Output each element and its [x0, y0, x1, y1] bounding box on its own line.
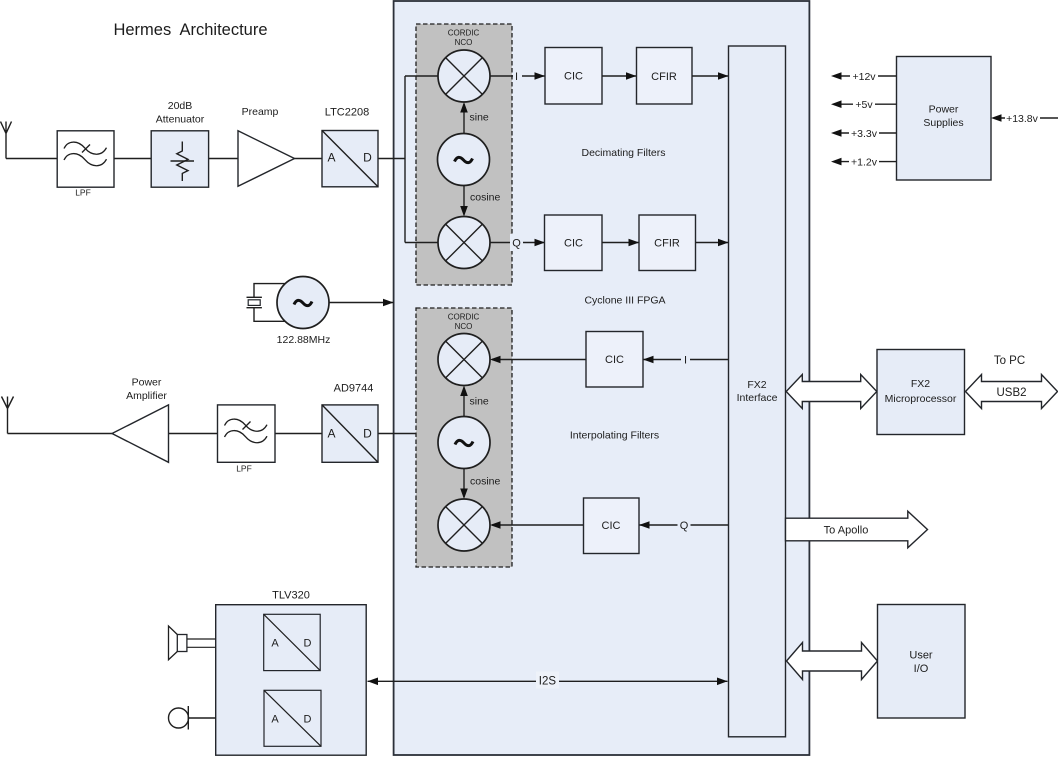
svg-text:D: D — [304, 714, 312, 726]
LPF box TX — [218, 405, 276, 474]
svg-text:Attenuator: Attenuator — [156, 114, 205, 126]
arrow CIC to CFIR (I) — [602, 75, 637, 77]
microphone — [169, 706, 216, 730]
codec TLV320 — [216, 590, 367, 756]
svg-text:FX2: FX2 — [911, 378, 930, 390]
power amplifier — [112, 377, 169, 463]
bus arrow USB2 — [966, 375, 1058, 409]
wire junction to mixer Q — [405, 242, 440, 244]
arrow FX2 interface to CIC (TX I) — [643, 359, 729, 361]
bus arrow FX2 interface to User IO — [787, 643, 878, 680]
oscillator 122.88MHz — [277, 277, 331, 347]
mixer RX Q — [438, 217, 490, 269]
svg-text:CIC: CIC — [605, 354, 624, 366]
svg-text:CORDIC: CORDIC — [448, 29, 480, 38]
power input +13.8v — [991, 110, 1058, 126]
arrow CFIR to FX2 interface (I) — [692, 75, 729, 77]
svg-text:D: D — [363, 151, 372, 165]
svg-text:To Apollo: To Apollo — [824, 525, 869, 537]
arrow FX2 interface to CIC (TX Q) — [639, 524, 729, 526]
User IO box — [878, 605, 966, 719]
svg-text:20dB: 20dB — [168, 100, 193, 112]
svg-text:cosine: cosine — [470, 192, 501, 204]
svg-text:A: A — [327, 151, 335, 165]
dashed box CORDIC NCO (transmit) — [416, 308, 512, 567]
power supplies box — [897, 57, 992, 181]
svg-text:Supplies: Supplies — [923, 117, 963, 129]
svg-text:CFIR: CFIR — [654, 238, 680, 250]
CFIR box RX Q — [639, 215, 696, 271]
wire attenuator to preamp — [209, 158, 238, 160]
svg-text:TLV320: TLV320 — [272, 590, 310, 602]
DAC box TLV320 bottom — [264, 690, 321, 746]
svg-text:CIC: CIC — [564, 71, 583, 83]
attenuator 20dB — [151, 100, 208, 187]
CIC box TX I — [586, 332, 643, 388]
svg-text:D: D — [363, 427, 372, 441]
arrow oscillator to FPGA — [330, 302, 394, 304]
power rail +5v — [831, 96, 897, 112]
wire LTC2208 to junction — [378, 158, 405, 160]
NCO oscillator RX — [438, 134, 490, 186]
wire junction to mixer I — [405, 75, 440, 77]
svg-text:USB2: USB2 — [996, 387, 1026, 399]
wire antenna to power amplifier — [8, 433, 113, 435]
node I transmit — [681, 351, 690, 368]
FX2 interface box — [729, 46, 786, 737]
svg-text:I2S: I2S — [539, 675, 557, 687]
svg-text:AD9744: AD9744 — [334, 383, 374, 395]
svg-text:A: A — [271, 638, 279, 650]
svg-text:Power: Power — [929, 104, 959, 116]
arrow CIC to mixer (TX Q) — [492, 524, 584, 526]
svg-text:Q: Q — [512, 238, 521, 250]
svg-text:FX2: FX2 — [747, 379, 766, 391]
svg-text:CFIR: CFIR — [651, 71, 677, 83]
svg-text:CIC: CIC — [602, 520, 621, 532]
mixer RX I — [438, 50, 490, 102]
CIC box RX Q — [545, 215, 603, 271]
speaker — [169, 626, 216, 660]
svg-text:I: I — [515, 71, 518, 83]
svg-text:To PC: To PC — [994, 355, 1025, 367]
crystal 122.88MHz — [247, 284, 286, 322]
svg-text:LTC2208: LTC2208 — [325, 107, 369, 119]
I2S bus wire — [368, 680, 728, 682]
svg-text:A: A — [327, 427, 335, 441]
svg-text:Hermes Architecture: Hermes Architecture — [113, 21, 267, 39]
arrow CIC to mixer (TX I) — [492, 359, 586, 361]
svg-text:CIC: CIC — [564, 238, 583, 250]
node Q transmit — [678, 517, 691, 534]
wire LPF to AD9744 — [275, 433, 322, 435]
CFIR box RX I — [637, 48, 693, 105]
wire AD9744 to NCO — [378, 433, 416, 435]
node Q receive — [510, 234, 523, 251]
svg-text:User: User — [909, 650, 933, 662]
svg-text:D: D — [304, 638, 312, 650]
svg-text:I: I — [684, 355, 687, 367]
svg-text:+3.3v: +3.3v — [851, 128, 878, 140]
svg-text:+1.2v: +1.2v — [851, 157, 878, 169]
cosine arrow TX — [463, 469, 465, 498]
arrow CFIR to FX2 interface (Q) — [696, 242, 729, 244]
NCO oscillator TX — [438, 417, 490, 469]
svg-text:Microprocessor: Microprocessor — [885, 393, 957, 405]
node I receive — [513, 67, 522, 84]
svg-text:sine: sine — [470, 396, 489, 408]
svg-text:+5v: +5v — [855, 99, 873, 111]
svg-text:Power: Power — [132, 377, 162, 389]
FX2 microprocessor box — [877, 350, 965, 435]
power rail +1.2v — [831, 154, 897, 170]
wire antenna to LPF — [6, 158, 57, 160]
svg-text:+12v: +12v — [852, 71, 876, 83]
sine arrow RX — [463, 104, 465, 134]
svg-text:Preamp: Preamp — [242, 106, 279, 118]
antenna RX — [1, 122, 12, 159]
CIC box RX I — [545, 48, 602, 105]
bus arrow FX2 interface to FX2 microprocessor — [786, 375, 877, 409]
svg-text:+13.8v: +13.8v — [1006, 113, 1039, 125]
wire LPF to attenuator — [114, 158, 151, 160]
svg-text:Cyclone III FPGA: Cyclone III FPGA — [584, 295, 665, 307]
ADC box TLV320 top — [264, 614, 321, 670]
svg-text:LPF: LPF — [236, 464, 252, 474]
mixer TX I — [438, 334, 490, 386]
sine arrow TX — [463, 388, 465, 417]
wire preamp to LTC2208 — [295, 158, 323, 160]
arrow To Apollo — [786, 511, 928, 548]
power rail +12v — [831, 68, 897, 84]
ADC LTC2208 — [322, 107, 378, 187]
svg-text:Q: Q — [680, 520, 689, 532]
svg-text:122.88MHz: 122.88MHz — [277, 334, 331, 346]
arrow CIC to CFIR (Q) — [602, 242, 639, 244]
svg-text:NCO: NCO — [455, 322, 473, 331]
svg-text:A: A — [271, 714, 279, 726]
svg-text:Amplifier: Amplifier — [126, 390, 167, 402]
wire mixer I to CIC — [490, 75, 545, 77]
FPGA block Cyclone III — [394, 1, 810, 755]
preamp — [238, 106, 295, 186]
node I2S — [536, 672, 559, 689]
svg-text:Interpolating Filters: Interpolating Filters — [570, 430, 659, 442]
svg-text:CORDIC: CORDIC — [448, 313, 480, 322]
wire mixer Q to CIC — [490, 242, 545, 244]
svg-text:I/O: I/O — [914, 663, 929, 675]
cosine arrow RX — [463, 186, 465, 215]
junction vertical wire — [404, 76, 406, 243]
dashed box CORDIC NCO (receive) — [416, 24, 512, 285]
mixer TX Q — [438, 499, 490, 551]
power rail +3.3v — [831, 125, 897, 141]
svg-text:Interface: Interface — [737, 392, 778, 404]
svg-text:sine: sine — [470, 112, 489, 124]
svg-text:LPF: LPF — [75, 188, 91, 198]
svg-text:NCO: NCO — [455, 38, 473, 47]
DAC AD9744 — [322, 383, 378, 463]
svg-text:Decimating Filters: Decimating Filters — [581, 147, 665, 159]
antenna TX — [2, 397, 14, 434]
LPF box RX — [57, 131, 114, 198]
wire power amplifier to LPF — [169, 433, 218, 435]
svg-text:cosine: cosine — [470, 476, 501, 488]
CIC box TX Q — [584, 498, 640, 554]
